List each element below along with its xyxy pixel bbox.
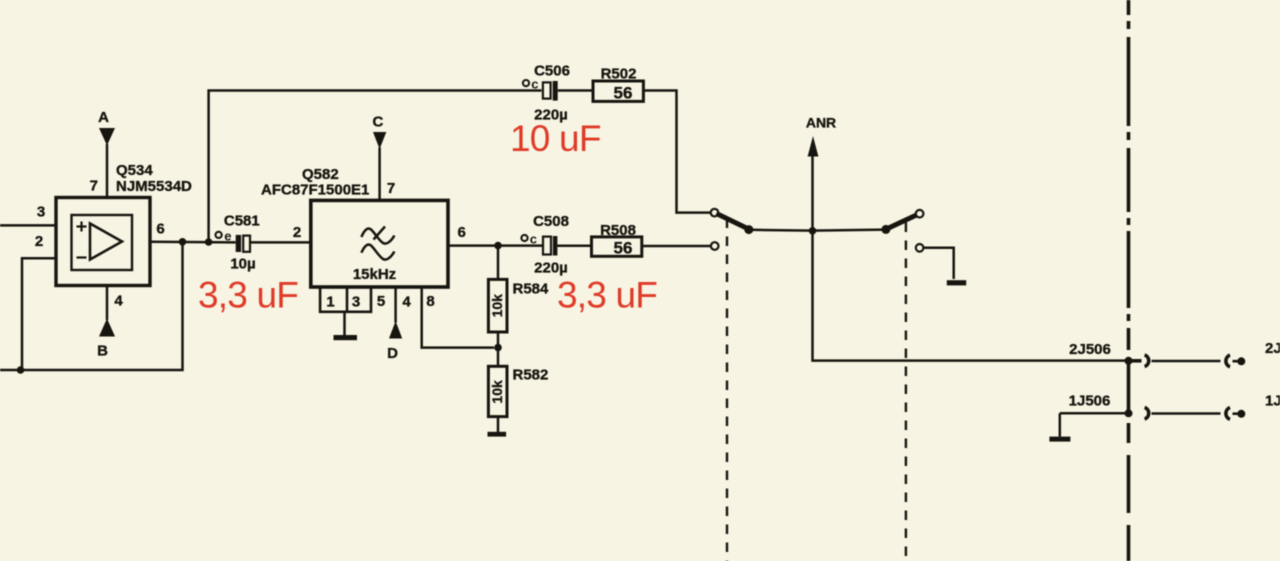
wire feedback bottom run <box>0 242 183 370</box>
svg-text:4: 4 <box>114 293 123 310</box>
wire pin3 input to op-amp <box>0 224 56 227</box>
svg-text:7: 7 <box>387 180 395 197</box>
ground (R582) <box>488 432 507 437</box>
wire op-amp pin4 to B <box>106 286 109 321</box>
wire top rail up and across to C506 <box>209 91 542 243</box>
off-page arrow B <box>99 319 115 337</box>
svg-text:1J506: 1J506 <box>1069 392 1111 409</box>
svg-text:c: c <box>530 232 537 247</box>
svg-text:6: 6 <box>458 224 466 241</box>
switch S2 lower contact <box>916 244 924 252</box>
capacitor C508 plate right (solid) <box>553 236 558 256</box>
svg-text:3: 3 <box>37 204 45 221</box>
svg-text:8: 8 <box>426 293 434 310</box>
resistor R582 body <box>488 366 507 416</box>
filter symbol lower wave <box>361 245 394 260</box>
wire C508 to R508 <box>557 245 591 248</box>
node output feedback tap <box>179 238 187 246</box>
node ANR junction <box>809 227 817 235</box>
wire R582 to ground <box>497 417 500 433</box>
resistor R508 body <box>592 237 642 256</box>
wire node to R584 <box>497 246 500 280</box>
capacitor C581 plate right (hollow) <box>243 236 250 252</box>
filter symbol slash <box>374 227 386 240</box>
switch S1 lower contact <box>711 242 719 250</box>
svg-text:2J506: 2J506 <box>1069 341 1111 358</box>
wire pins 1-3 to ground <box>343 312 346 336</box>
wire Q582 pin6 output <box>448 244 543 247</box>
boundary dash-dot line <box>1127 0 1131 561</box>
svg-text:R508: R508 <box>600 222 636 239</box>
svg-text:3,3 uF: 3,3 uF <box>557 275 657 316</box>
wire R584 to R582 <box>497 332 500 366</box>
off-page arrow ANR <box>808 136 819 157</box>
wire between 2J506 and 1J506 junctions <box>1127 361 1131 414</box>
capacitor C506 plate right (solid) <box>553 81 558 101</box>
svg-text:Q582: Q582 <box>302 166 339 183</box>
wire S1 pivot to ANR node <box>749 229 813 232</box>
connector 1J506 male arc <box>1226 408 1230 420</box>
svg-text:6: 6 <box>156 221 164 238</box>
switch S2 lever <box>887 215 917 229</box>
filter symbol upper wave <box>361 229 394 244</box>
node 1J506 junction <box>1125 409 1133 417</box>
svg-text:B: B <box>97 343 108 360</box>
svg-text:C581: C581 <box>224 212 260 229</box>
capacitor C506 plate left (hollow) <box>543 82 551 98</box>
ground (Q582 pins 1,3) <box>334 335 358 340</box>
Q582 bottom pin cells 1 and 3 <box>320 287 371 312</box>
svg-text:3: 3 <box>352 294 360 311</box>
svg-text:2: 2 <box>293 224 301 241</box>
wire 2J506 connector link <box>1152 360 1221 363</box>
svg-text:R582: R582 <box>513 366 549 383</box>
svg-text:2J: 2J <box>1265 340 1280 357</box>
ground (S2 contact) <box>947 280 966 285</box>
wire S2 lower contact to ground <box>924 248 954 279</box>
svg-text:3,3 uF: 3,3 uF <box>198 275 298 316</box>
switch S1 upper contact <box>711 209 719 217</box>
svg-text:1: 1 <box>326 294 334 311</box>
wire 1J506 connector link <box>1152 412 1221 415</box>
wire C506 to R502 <box>558 89 593 92</box>
node feedback junction <box>17 366 25 374</box>
svg-text:7: 7 <box>90 178 98 195</box>
svg-text:R502: R502 <box>601 65 637 82</box>
svg-text:C508: C508 <box>533 213 569 230</box>
wire 1J506 row <box>1060 412 1129 415</box>
resistor R584 body <box>488 279 507 332</box>
svg-text:56: 56 <box>614 239 633 258</box>
node pin6 / R584 junction <box>494 242 502 250</box>
wire op-amp output <box>150 240 236 243</box>
polarity mark C508 <box>521 232 537 247</box>
wire Q582 pin7 to C <box>378 148 381 201</box>
switch S2 pivot dot <box>881 225 890 234</box>
svg-text:15kHz: 15kHz <box>353 266 396 283</box>
wire Q582 pin D stub <box>394 287 397 323</box>
connector 2J506 female arc <box>1129 355 1149 367</box>
off-page arrow C <box>373 132 386 149</box>
switch S1 lever <box>719 215 749 229</box>
svg-text:10µ: 10µ <box>230 255 255 272</box>
svg-text:R584: R584 <box>513 280 550 297</box>
wire op-amp pin7 to A <box>106 144 109 198</box>
op-amp minus input mark <box>77 256 87 258</box>
wire 1J506 ground stub <box>1059 413 1062 436</box>
capacitor C581 plate left (solid) <box>236 235 241 252</box>
wire pin2 input from feedback <box>22 258 56 370</box>
op-amp plus input mark <box>77 222 87 232</box>
svg-text:C: C <box>372 114 383 131</box>
wire ANR arrow stem <box>811 153 814 231</box>
ground (1J506) <box>1049 437 1070 442</box>
switch S1 pivot dot <box>744 225 753 234</box>
wire Q582 pin2 from C581 <box>250 241 311 244</box>
wire ANR node to S2 pivot <box>813 230 885 231</box>
op-amp U Q534 inner box <box>72 215 133 270</box>
svg-text:10k: 10k <box>489 380 505 404</box>
svg-text:56: 56 <box>614 84 633 103</box>
svg-text:5: 5 <box>377 293 385 310</box>
svg-text:10 uF: 10 uF <box>510 118 601 159</box>
wire Q582 pin8 to resistor junction <box>422 287 494 348</box>
svg-text:ANR: ANR <box>806 115 836 131</box>
svg-text:C506: C506 <box>534 63 570 80</box>
switch S2 upper contact <box>916 210 924 218</box>
connector 2J506 male pin dot <box>1233 357 1246 365</box>
svg-text:NJM5534D: NJM5534D <box>116 178 192 195</box>
switch linkage dashed line left <box>726 219 728 561</box>
IC Q582 box <box>311 200 448 287</box>
svg-text:4: 4 <box>402 294 411 311</box>
resistor R502 body <box>593 81 643 101</box>
wire R508 to lower left switch contact <box>642 245 711 248</box>
svg-text:D: D <box>387 345 398 362</box>
svg-text:1J: 1J <box>1265 393 1280 410</box>
connector 2J506 male arc <box>1226 355 1230 367</box>
connector 1J506 female arc <box>1145 407 1149 419</box>
off-page arrow A <box>99 128 115 146</box>
svg-text:2: 2 <box>35 233 43 250</box>
polarity mark C506 <box>523 76 539 91</box>
wire ANR node down to 2J506 row <box>813 231 1130 361</box>
capacitor C508 plate left (hollow) <box>543 237 551 255</box>
svg-text:AFC87F1500E1: AFC87F1500E1 <box>261 182 369 199</box>
node R584/R582 junction <box>494 344 502 352</box>
svg-text:Q534: Q534 <box>116 162 153 179</box>
op-amp U Q534 outer box <box>56 198 150 286</box>
svg-text:10k: 10k <box>489 294 505 318</box>
svg-text:e: e <box>224 228 231 243</box>
op-amp Q534 triangle <box>90 224 122 260</box>
svg-text:A: A <box>98 109 109 126</box>
switch linkage dashed line right <box>905 223 907 561</box>
wire R502 to left switch contact <box>643 91 710 213</box>
node 2J506 junction <box>1125 357 1133 365</box>
polarity mark C581 <box>216 228 232 243</box>
connector 1J506 male pin dot <box>1233 410 1246 418</box>
off-page arrow D <box>389 321 402 339</box>
node output toprail tap <box>205 238 213 246</box>
